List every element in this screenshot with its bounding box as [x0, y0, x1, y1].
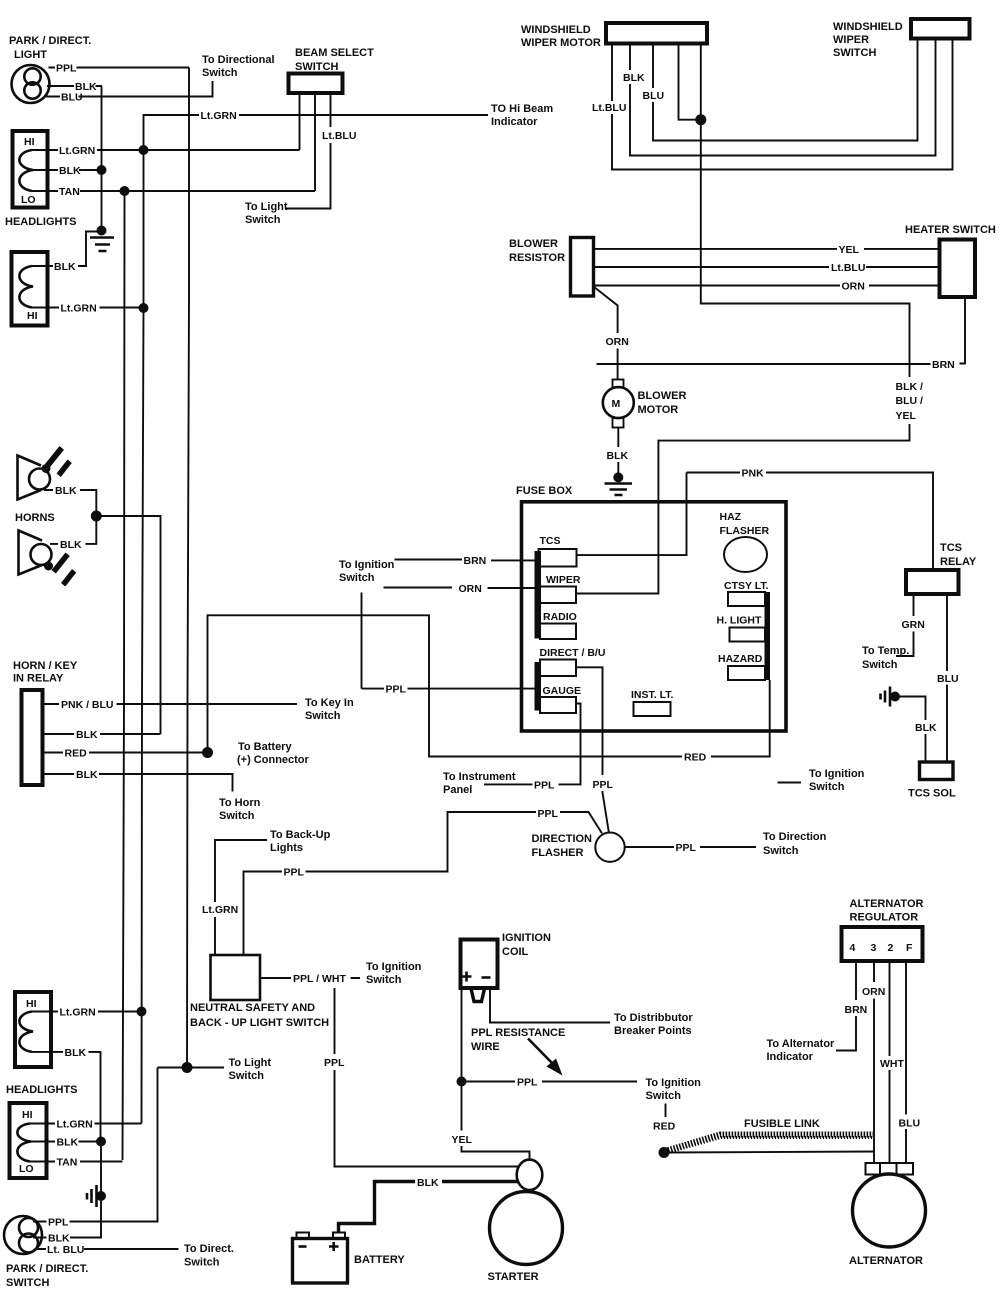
svg-text:TAN: TAN	[57, 1157, 78, 1169]
svg-text:BEAM SELECT: BEAM SELECT	[295, 47, 374, 59]
INST. LT. fuse	[634, 702, 671, 716]
wire Lt.GRN headlight4	[30, 1123, 142, 1125]
svg-text:WINDSHIELD: WINDSHIELD	[833, 21, 903, 33]
HAZ FLASHER circle	[724, 537, 767, 572]
svg-text:To Back-Up: To Back-Up	[270, 829, 331, 841]
label To Instrument Panel	[443, 771, 516, 796]
svg-text:PNK: PNK	[742, 468, 765, 480]
wire Lt.BLU resistor to heater switch	[594, 266, 940, 268]
coil tower	[471, 989, 485, 1002]
svg-text:F: F	[906, 942, 913, 954]
label BLK / BLU / YEL	[896, 381, 923, 422]
junction dot Lt.GRN headlight2	[139, 303, 149, 313]
svg-text:Switch: Switch	[809, 781, 845, 793]
svg-text:DIRECTION: DIRECTION	[532, 833, 593, 845]
TCS fuse	[539, 549, 577, 567]
svg-text:ORN: ORN	[862, 986, 885, 998]
blower resistor box	[571, 238, 594, 297]
svg-text:GRN: GRN	[902, 619, 925, 631]
wire RED relay to battery junction	[43, 752, 208, 754]
wire TAN headlight1 to beam select switch	[32, 190, 315, 192]
svg-text:BLOWER: BLOWER	[509, 238, 558, 250]
svg-text:BLK: BLK	[623, 72, 645, 84]
wire wiper feed down to fuse box	[577, 120, 910, 594]
svg-text:Lt.BLU: Lt.BLU	[831, 262, 865, 274]
svg-text:HEATER SWITCH: HEATER SWITCH	[905, 224, 996, 236]
label To Direction Switch	[763, 831, 827, 857]
wire BLU pinF to alternator	[905, 961, 907, 1164]
wire RED junction to alternator	[664, 1152, 874, 1153]
wire BLK horn2	[50, 516, 96, 544]
wire BLK headlight1 to ground	[33, 169, 102, 171]
svg-text:Indicator: Indicator	[491, 116, 538, 128]
svg-text:BLU: BLU	[937, 673, 959, 685]
junction dot to battery connector	[202, 747, 213, 758]
wire BLK vertical to ground1	[101, 86, 103, 230]
label IGNITION COIL	[502, 932, 551, 958]
label PARK / DIRECT. SWITCH	[6, 1263, 88, 1289]
junction dot TAN	[120, 186, 130, 196]
svg-text:PPL: PPL	[593, 779, 614, 791]
label To Key In Switch	[305, 697, 354, 722]
label To Distribbutor Breaker Points	[614, 1012, 693, 1037]
svg-text:INST. LT.: INST. LT.	[631, 689, 673, 701]
junction dot to light switch	[182, 1062, 193, 1073]
label To Ignition Switch (neutral safety)	[366, 961, 422, 986]
GAUGE fuse	[540, 697, 576, 713]
svg-text:BLU /: BLU /	[896, 395, 923, 407]
wire YEL coil to starter solenoid	[462, 1082, 530, 1161]
svg-text:LO: LO	[19, 1163, 34, 1175]
svg-text:SWITCH: SWITCH	[295, 61, 338, 73]
svg-text:CTSY LT.: CTSY LT.	[724, 580, 769, 592]
svg-text:To Horn: To Horn	[219, 797, 261, 809]
svg-text:SWITCH: SWITCH	[6, 1277, 49, 1289]
wire BLK relay to horns	[43, 733, 161, 735]
wire BLU relay to TCS sol	[946, 594, 948, 762]
ground symbol (headlights)	[90, 226, 114, 252]
direction flasher circle	[595, 833, 624, 862]
svg-text:Switch: Switch	[219, 810, 255, 822]
ground symbol (blower motor)	[605, 472, 633, 495]
wire ORN resistor to heater switch	[594, 285, 940, 287]
svg-text:RED: RED	[65, 748, 88, 760]
wire RED loop (battery feed to fuse box)	[208, 615, 770, 756]
wire PPL flasher to direction switch	[625, 846, 756, 848]
wire BLK relay to horn switch	[43, 774, 233, 792]
svg-text:Breaker Points: Breaker Points	[614, 1025, 692, 1037]
svg-text:FLASHER: FLASHER	[532, 847, 584, 859]
svg-text:BLK: BLK	[60, 539, 82, 551]
svg-text:FUSIBLE LINK: FUSIBLE LINK	[744, 1118, 820, 1130]
svg-text:TCS: TCS	[540, 535, 561, 547]
label To Battery (+) Connector	[237, 741, 310, 766]
beam select switch box	[289, 74, 343, 94]
svg-text:BLK: BLK	[417, 1177, 439, 1189]
wiper motor pin BLK wire	[630, 39, 936, 156]
headlights box 2 (HI only)	[12, 252, 48, 326]
svg-text:Panel: Panel	[443, 784, 472, 796]
arrow resistance wire	[528, 1039, 563, 1076]
wire horns junction to relay BLK	[96, 516, 160, 734]
svg-text:RED: RED	[684, 752, 707, 764]
CTSY LT. fuse	[728, 592, 765, 606]
svg-text:HEADLIGHTS: HEADLIGHTS	[6, 1084, 78, 1096]
wire TAN long vertical	[123, 191, 125, 1160]
wire BRN pin4 to alternator indicator	[836, 961, 856, 1051]
svg-text:To Key In: To Key In	[305, 697, 354, 709]
svg-text:BLK: BLK	[48, 1233, 70, 1245]
svg-text:IGNITION: IGNITION	[502, 932, 551, 944]
svg-text:ALTERNATOR: ALTERNATOR	[849, 1255, 923, 1267]
horn 2 symbol	[19, 531, 77, 587]
svg-text:BLK: BLK	[607, 450, 629, 462]
label WINDSHIELD WIPER MOTOR	[521, 24, 601, 49]
svg-text:STARTER: STARTER	[488, 1271, 539, 1283]
svg-text:Lt.GRN: Lt.GRN	[201, 110, 237, 122]
wire Lt.GRN headlight3	[32, 1011, 142, 1013]
junction dot RED	[659, 1147, 670, 1158]
wire BRN to ignition switch (TCS feed)	[395, 559, 536, 562]
svg-text:Switch: Switch	[646, 1090, 682, 1102]
svg-text:To Light: To Light	[245, 201, 288, 213]
beam select pin 1 wire	[299, 93, 301, 150]
wire Lt.GRN headlight2	[32, 307, 144, 309]
wire DIRECT fuse to flasher	[576, 667, 609, 833]
svg-text:HI: HI	[22, 1109, 33, 1121]
wire To Light Switch junction	[158, 1067, 225, 1069]
svg-text:(+) Connector: (+) Connector	[237, 754, 310, 766]
RADIO fuse	[540, 624, 576, 640]
wire WHT pin2 to alternator	[889, 961, 891, 1164]
svg-text:LO: LO	[21, 194, 36, 206]
headlights box 3 (HI only)	[15, 992, 51, 1067]
svg-text:HAZARD: HAZARD	[718, 653, 763, 665]
wire TAN headlight4	[30, 1161, 123, 1163]
park/direct light (top) lamp symbol	[12, 65, 50, 103]
svg-text:To Directional: To Directional	[202, 54, 275, 66]
svg-text:HI: HI	[26, 998, 37, 1010]
wire PNK/BLU relay to key-in switch	[43, 703, 298, 705]
svg-text:2: 2	[888, 942, 894, 954]
label To Back-Up Lights	[270, 829, 331, 854]
svg-text:WHT: WHT	[880, 1058, 904, 1070]
wire YEL resistor to heater switch	[594, 248, 940, 250]
svg-text:PPL: PPL	[48, 1217, 69, 1229]
svg-text:BLK: BLK	[915, 722, 937, 734]
svg-text:Indicator: Indicator	[767, 1051, 814, 1063]
svg-text:YEL: YEL	[896, 410, 917, 422]
alternator terminal cap	[866, 1163, 914, 1175]
svg-text:HAZ: HAZ	[720, 511, 742, 523]
svg-text:M: M	[612, 398, 621, 410]
wire stub ignition to RED	[665, 1104, 667, 1118]
battery symbol	[293, 1233, 348, 1284]
wire PPL/WHT to ignition switch	[260, 977, 360, 979]
svg-text:PARK / DIRECT.: PARK / DIRECT.	[6, 1263, 88, 1275]
svg-text:Switch: Switch	[202, 67, 238, 79]
alternator circle	[853, 1174, 926, 1247]
ground symbol 2 (sideways)	[87, 1185, 106, 1207]
svg-text:Switch: Switch	[305, 710, 341, 722]
svg-text:PPL: PPL	[386, 684, 407, 696]
HAZARD fuse	[728, 666, 765, 680]
label HAZ FLASHER	[720, 511, 770, 537]
svg-text:To Instrument: To Instrument	[443, 771, 516, 783]
label PARK / DIRECT. LIGHT (top)	[9, 35, 91, 61]
headlight 4 filament coil	[17, 1124, 31, 1162]
windshield wiper motor box	[606, 23, 707, 44]
svg-text:BLK: BLK	[76, 769, 98, 781]
headlight 3 filament coil	[19, 1012, 33, 1052]
svg-text:Lt.BLU: Lt.BLU	[322, 130, 356, 142]
svg-text:4: 4	[850, 942, 856, 954]
svg-text:MOTOR: MOTOR	[638, 404, 679, 416]
label To Light Switch (bottom)	[229, 1057, 272, 1082]
label To Ignition Switch (gauge feed)	[339, 559, 395, 584]
wiper motor pin 4 wire	[679, 44, 701, 120]
svg-text:BRN: BRN	[932, 359, 955, 371]
svg-text:HEADLIGHTS: HEADLIGHTS	[5, 216, 77, 228]
svg-text:RELAY: RELAY	[940, 556, 977, 568]
DIRECT/GAUGE bus bar	[535, 662, 542, 711]
park/direct switch lamp (bottom)	[4, 1216, 42, 1254]
svg-text:TCS SOL: TCS SOL	[908, 788, 956, 800]
label PPL RESISTANCE WIRE	[471, 1027, 565, 1053]
svg-text:To Ignition: To Ignition	[366, 961, 422, 973]
svg-text:TO Hi Beam: TO Hi Beam	[491, 103, 553, 115]
svg-text:Switch: Switch	[862, 659, 898, 671]
svg-text:BLK: BLK	[59, 165, 81, 177]
svg-text:To Alternator: To Alternator	[767, 1038, 836, 1050]
svg-text:BRN: BRN	[845, 1004, 868, 1016]
svg-text:TCS: TCS	[940, 542, 962, 554]
svg-text:PPL: PPL	[538, 808, 559, 820]
svg-text:Switch: Switch	[339, 572, 375, 584]
junction dot coil PPL	[457, 1077, 467, 1087]
wire ORN to ignition switch (wiper feed)	[384, 587, 536, 590]
label To Directional Switch	[202, 54, 275, 79]
junction dot Lt.GRN at x143.5	[139, 145, 149, 155]
svg-text:BLK: BLK	[57, 1137, 79, 1149]
wiper motor pin BLU wire	[653, 39, 918, 141]
coil plus symbol	[462, 972, 472, 982]
svg-text:To Ignition: To Ignition	[339, 559, 395, 571]
svg-text:NEUTRAL SAFETY AND: NEUTRAL SAFETY AND	[190, 1002, 315, 1014]
label TCS RELAY	[940, 542, 977, 568]
junction dot horns	[91, 511, 102, 522]
alternator regulator box	[842, 927, 923, 961]
pin labels 4 3 2 F	[850, 942, 914, 954]
svg-text:BRN: BRN	[464, 555, 487, 567]
blower motor symbol	[603, 380, 634, 428]
svg-text:PPL: PPL	[534, 780, 555, 792]
svg-text:WIPER: WIPER	[833, 34, 869, 46]
wire Lt.GRN headlight1 to beam select switch	[32, 149, 300, 151]
wire Lt.BLU park/direct to direct switch	[36, 1248, 179, 1250]
wire stub to ignition switch (right of RED)	[778, 782, 802, 784]
wire BLK horn1	[44, 490, 96, 516]
label WINDSHIELD WIPER SWITCH	[833, 21, 903, 59]
svg-text:To Direction: To Direction	[763, 831, 827, 843]
wiper motor pin 5 wire	[700, 44, 702, 120]
svg-text:WIPER MOTOR: WIPER MOTOR	[521, 37, 601, 49]
svg-text:Switch: Switch	[366, 974, 402, 986]
svg-text:BLK /: BLK /	[896, 381, 923, 393]
svg-text:PPL: PPL	[517, 1077, 538, 1089]
beam select pin 2 wire	[314, 93, 316, 191]
wire BLK headlight2 to ground1	[32, 232, 98, 267]
TCS fuse bus bar	[535, 551, 542, 639]
svg-text:PNK / BLU: PNK / BLU	[61, 699, 114, 711]
coil minus symbol	[482, 976, 491, 979]
svg-text:YEL: YEL	[839, 244, 860, 256]
svg-text:BLOWER: BLOWER	[638, 390, 687, 402]
wire coil minus to distributor	[490, 988, 610, 1023]
svg-text:To Temp.: To Temp.	[862, 645, 909, 657]
svg-text:PPL RESISTANCE: PPL RESISTANCE	[471, 1027, 565, 1039]
svg-text:RADIO: RADIO	[543, 611, 577, 623]
wire PPL long vertical (park light to To Light Switch junction)	[187, 68, 189, 1068]
junction dot Lt.GRN headlight3	[137, 1007, 147, 1017]
beam select pin 3 wire Lt.BLU to light switch	[285, 93, 331, 209]
label HORN / KEY IN RELAY	[13, 660, 78, 685]
svg-text:WINDSHIELD: WINDSHIELD	[521, 24, 591, 36]
wire PPL diagonal into flasher	[560, 812, 602, 833]
ground symbol 3 (sideways, tcs)	[881, 687, 901, 707]
TCS relay box	[906, 570, 959, 594]
svg-text:ORN: ORN	[459, 583, 482, 595]
fuse box outline	[522, 502, 787, 731]
svg-text:Switch: Switch	[229, 1070, 265, 1082]
wire ORN diagonal from blower resistor	[594, 287, 618, 380]
svg-text:BLU: BLU	[899, 1118, 921, 1130]
wire PPL neutral safety to flasher riser	[244, 812, 537, 955]
wire BLK from park light to vertical	[47, 85, 102, 87]
svg-text:BLK: BLK	[54, 261, 76, 273]
headlights box 1 (HI/LO)	[13, 131, 48, 208]
svg-text:To Direct.: To Direct.	[184, 1243, 234, 1255]
svg-text:Switch: Switch	[763, 845, 799, 857]
svg-text:To Light: To Light	[229, 1057, 272, 1069]
svg-text:Lt.BLU: Lt.BLU	[592, 102, 626, 114]
svg-text:Lt.GRN: Lt.GRN	[61, 303, 97, 315]
label BEAM SELECT SWITCH	[295, 47, 374, 73]
svg-text:To Ignition: To Ignition	[809, 768, 865, 780]
H. LIGHT fuse	[730, 628, 766, 642]
svg-text:SWITCH: SWITCH	[833, 47, 876, 59]
wire PNK tcs fuse to relay	[687, 473, 934, 571]
svg-text:WIPER: WIPER	[546, 574, 581, 586]
label TO Hi Beam Indicator	[491, 103, 553, 128]
junction dot BLK headlight4	[96, 1137, 106, 1147]
svg-text:BLK: BLK	[76, 729, 98, 741]
wire PPL ignition to gauge fuse	[362, 688, 536, 690]
label ALTERNATOR REGULATOR	[850, 898, 924, 924]
label DIRECTION FLASHER	[532, 833, 593, 859]
wire BLK battery to starter (thick)	[339, 1182, 519, 1234]
wire ORN pin3 to fusible link and alternator	[873, 961, 875, 1164]
headlight 1 filament coil	[19, 150, 33, 191]
label To Temp. Switch	[862, 645, 909, 671]
wire BLK ground to TCS sol	[899, 697, 926, 763]
headlights box 4 (HI/LO)	[10, 1103, 47, 1178]
label BLOWER RESISTOR	[509, 238, 565, 264]
svg-text:HI: HI	[27, 310, 38, 322]
svg-text:LIGHT: LIGHT	[14, 49, 47, 61]
wire BLK headlight4	[31, 1141, 102, 1143]
svg-text:PPL: PPL	[324, 1057, 345, 1069]
TCS SOL box	[920, 762, 954, 780]
label NEUTRAL SAFETY AND BACK-UP LIGHT SWITCH	[190, 1002, 329, 1029]
wire GAUGE fuse to instrument panel	[484, 704, 581, 785]
svg-text:To Distribbutor: To Distribbutor	[614, 1012, 693, 1024]
svg-text:PPL / WHT: PPL / WHT	[293, 973, 346, 985]
label To Horn Switch	[219, 797, 261, 822]
label To Alternator Indicator	[767, 1038, 836, 1063]
svg-text:ALTERNATOR: ALTERNATOR	[850, 898, 924, 910]
svg-text:Lt.GRN: Lt.GRN	[59, 145, 95, 157]
wire Lt.GRN backup lights	[215, 840, 267, 955]
junction dot wiper motor	[695, 114, 706, 125]
svg-text:H. LIGHT: H. LIGHT	[717, 615, 762, 627]
svg-text:FUSE BOX: FUSE BOX	[516, 485, 573, 497]
svg-text:Lt.GRN: Lt.GRN	[60, 1007, 96, 1019]
svg-text:BLU: BLU	[643, 90, 665, 102]
DIRECT/B-U fuse	[540, 660, 576, 677]
svg-text:PPL: PPL	[56, 63, 77, 75]
svg-text:Lt.GRN: Lt.GRN	[57, 1119, 93, 1131]
wire Lt.GRN branch up to hi-beam line	[144, 115, 489, 150]
svg-text:HORN / KEY: HORN / KEY	[13, 660, 78, 672]
svg-text:Lights: Lights	[270, 842, 303, 854]
heater switch box	[940, 240, 976, 298]
svg-text:HI: HI	[24, 136, 35, 148]
svg-text:DIRECT / B/U: DIRECT / B/U	[540, 647, 606, 659]
wire BLK vertical to ground2 and park/direct	[33, 1142, 101, 1238]
svg-text:Lt. BLU: Lt. BLU	[47, 1244, 84, 1256]
wire PPL ignition-to-starter vertical	[335, 988, 520, 1167]
svg-text:BLK: BLK	[55, 485, 77, 497]
windshield wiper switch box	[911, 19, 970, 39]
label To Ignition Switch (right)	[809, 768, 865, 793]
svg-text:PPL: PPL	[676, 842, 697, 854]
WIPER fuse	[540, 587, 576, 604]
svg-text:BACK - UP LIGHT SWITCH: BACK - UP LIGHT SWITCH	[190, 1017, 329, 1029]
wire TCS fuse to PNK riser	[577, 473, 687, 556]
svg-text:Switch: Switch	[245, 214, 281, 226]
svg-text:PPL: PPL	[284, 867, 305, 879]
wire BLU from park light up to directional switch	[46, 81, 213, 97]
svg-text:IN RELAY: IN RELAY	[13, 673, 64, 685]
ignition coil box	[461, 940, 498, 989]
svg-text:RED: RED	[653, 1121, 676, 1133]
neutral safety and back-up light switch box	[211, 955, 261, 1000]
svg-text:YEL: YEL	[452, 1134, 473, 1146]
svg-text:To Battery: To Battery	[238, 741, 292, 753]
wire PPL down to park/direct switch	[33, 1068, 158, 1222]
svg-text:FLASHER: FLASHER	[720, 525, 770, 537]
wire To Ignition Switch stub down to PPL gauge line	[361, 593, 363, 689]
headlight 2 filament coil	[19, 266, 33, 308]
starter circle	[490, 1192, 563, 1265]
svg-text:Lt.GRN: Lt.GRN	[202, 904, 238, 916]
wire PPL from park light	[49, 67, 190, 69]
svg-text:PARK / DIRECT.: PARK / DIRECT.	[9, 35, 91, 47]
wire BLK blower motor to ground	[617, 428, 619, 478]
svg-text:ORN: ORN	[606, 336, 629, 348]
svg-text:ORN: ORN	[842, 281, 865, 293]
